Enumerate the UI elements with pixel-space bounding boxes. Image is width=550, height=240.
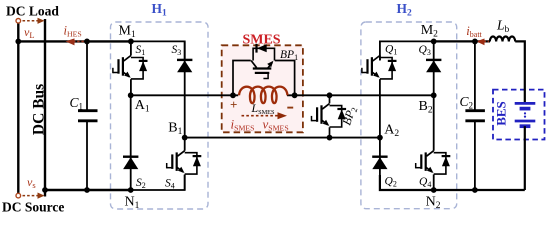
diode Q3 leg (433, 41, 435, 95)
IGBT BP1 (rotated) (251, 44, 274, 79)
node dot SMES left (230, 92, 236, 98)
node dot A2 (377, 135, 383, 141)
node dot N2 (431, 187, 437, 193)
node dot C2 top (472, 39, 478, 45)
capacitor C2 plates (465, 109, 485, 112)
IGBT BP2 leg bottom (329, 127, 331, 137)
wire top rail right (M2 to Lb) (434, 40, 490, 42)
v_L arrow (23, 18, 45, 24)
diode S2 (123, 157, 138, 169)
capacitor C2 leg bottom (474, 121, 476, 190)
wire top rail H1 internal (M1 to S3 leg) (131, 41, 185, 60)
diode Q2 (372, 157, 387, 169)
DC bus right bar (44, 19, 46, 197)
i_HES arrow (66, 38, 85, 45)
IGBT Q4 (416, 151, 451, 174)
node dot bus/top rail (15, 39, 21, 45)
terminal circle bottom (16, 193, 21, 198)
node dot SMES right (292, 92, 298, 98)
DC bus left bar (17, 23, 19, 194)
node dot bus/bottom rail (42, 187, 48, 193)
capacitor C2 leg top (474, 41, 476, 111)
- polarity (287, 107, 293, 109)
BES box (493, 90, 545, 140)
IGBT Q1 (362, 56, 397, 79)
SMES coil L_SMES (239, 87, 288, 104)
svg-text:DC Bus: DC Bus (31, 84, 48, 135)
capacitor C1 leg top (86, 41, 88, 111)
diode S3 leg (184, 41, 186, 137)
wire top rail H1 (bus to M1) (17, 40, 131, 42)
IGBT S1 leg (130, 41, 132, 55)
wire SMES to B2 (287, 94, 434, 96)
IGBT Q1 leg (379, 56, 381, 61)
wire top rail H2 (380, 41, 434, 60)
battery cell dots (524, 112, 526, 114)
IGBT Q4 leg (433, 95, 435, 150)
node dot S2 bottom (128, 187, 134, 193)
capacitor C1 plates (78, 109, 98, 112)
SMES bypass wire left (233, 61, 251, 96)
wire bottom rail H1 internal (131, 175, 185, 190)
v_s arrow (23, 193, 45, 199)
wire bottom rail H2 (380, 175, 525, 190)
wire A1 row (A1 to SMES coil) (131, 94, 239, 96)
battery BES plates (515, 103, 536, 126)
diode S2 leg (130, 95, 132, 190)
IGBT BP2 leg top (329, 95, 331, 103)
wire bottom rail H1 (45, 189, 131, 191)
capacitor C1 leg bottom (86, 121, 88, 190)
i_SMES direction arrow (242, 112, 288, 119)
SMES box (222, 45, 303, 132)
inductor Lb (490, 36, 515, 41)
node dot BP2 top (327, 92, 333, 98)
node dot BP2 bottom (327, 135, 333, 141)
wire Lb to battery (515, 41, 525, 102)
svg-text:+: + (230, 97, 237, 112)
terminal circle top (16, 19, 21, 24)
H-bridge box H2 (361, 22, 457, 209)
diode Q2 leg (379, 138, 381, 190)
wire B1 row (B1 to A2) (185, 137, 380, 139)
IGBT S4 leg (184, 138, 186, 151)
node dot M2 (431, 39, 437, 45)
IGBT S1 (113, 56, 148, 79)
i_batt arrow (476, 39, 489, 46)
IGBT S4 (167, 151, 202, 174)
diode S3 (177, 60, 192, 72)
svg-text:DC Source: DC Source (2, 199, 64, 214)
node dot C2 bottom (472, 187, 478, 193)
IGBT BP2 (312, 104, 347, 127)
node dot C1 top (84, 39, 90, 45)
diode Q3 (426, 60, 441, 72)
svg-text:DC Load: DC Load (6, 4, 59, 19)
wire battery to bottom rail (524, 126, 526, 190)
node dot B2 (431, 92, 437, 98)
node dot C1 bottom (84, 187, 90, 193)
svg-text:SMES: SMES (242, 33, 280, 48)
H-bridge box H1 (111, 22, 209, 209)
SMES bypass wire right (275, 61, 295, 96)
node dot B1 (182, 135, 188, 141)
node dot M1 (128, 39, 134, 45)
svg-text:BES: BES (494, 101, 509, 126)
node dot A1 (128, 92, 134, 98)
